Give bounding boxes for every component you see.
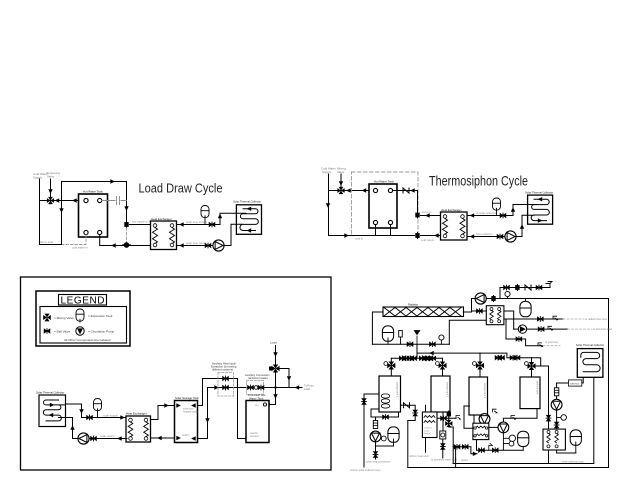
port: T1 bottom-left (84, 230, 88, 234)
ball valve BV34 (514, 355, 520, 360)
arrow: branch down (287, 376, 291, 381)
B3 bottom left drop (473, 415, 475, 423)
tank: domestic hot water tank D (246, 401, 269, 443)
valve tab left (269, 367, 273, 371)
radiator truss (384, 308, 461, 317)
strainer S2 (554, 388, 558, 396)
arrow: to tank (164, 403, 169, 407)
svg-text:Radiator: Radiator (408, 302, 418, 306)
faucet symbol (546, 282, 552, 288)
svg-text:storage tank 2: storage tank 2 (446, 382, 449, 398)
ball valve BV21 (504, 285, 510, 290)
riser to 3way T1 (391, 353, 531, 377)
svg-text:Thermosiphon Cycle: Thermosiphon Cycle (429, 174, 528, 189)
pipe: HX1 bottom to pump (177, 224, 237, 245)
tank: solar storage tank T3 (175, 401, 198, 443)
ball valve BV28 (399, 356, 405, 361)
pump P8 (479, 414, 490, 425)
pipe: HX3 bottom return to collector (66, 418, 128, 439)
solar thermal collector C2 (528, 195, 553, 224)
valve: dark square V7 (447, 411, 451, 417)
ball valve BV27 (430, 342, 436, 347)
ball valve BV32b (499, 355, 505, 360)
arrow: collector top (538, 197, 543, 201)
HX2 ports (443, 215, 464, 238)
ball valve BV39 (441, 416, 447, 421)
manifold drop junction (416, 344, 418, 353)
ball valve BV42 (462, 444, 468, 449)
valve: circle valve on return (123, 242, 130, 248)
H8 coil left (547, 434, 551, 443)
ET4 stem (387, 338, 389, 344)
pipe: HX2 to collector (467, 205, 528, 216)
arrow: c3 down (79, 409, 83, 414)
svg-text:Solar Thermal Collector: Solar Thermal Collector (233, 200, 261, 204)
svg-text:Supply: Supply (322, 170, 332, 174)
solar collector C4 (577, 349, 603, 378)
gauge G2 stem (440, 340, 442, 344)
svg-text:solar loop supply: solar loop supply (186, 220, 208, 224)
pipe: T3 top-right riser (198, 379, 238, 406)
legend expansion tank symbol (76, 309, 84, 321)
arrow: up to collector (70, 425, 74, 430)
ET7 stem (393, 439, 395, 446)
ET1 stem (204, 216, 206, 225)
arrow: into mixing valve (48, 189, 52, 194)
svg-text:Load: Load (270, 341, 277, 345)
collector sensor line (557, 372, 594, 464)
arrow: into tank D (245, 436, 250, 440)
ball valve BV35 (362, 399, 367, 405)
svg-text:sensor: sensor (570, 381, 579, 385)
ball valve BV8 (223, 385, 229, 390)
ball valve BV7 (223, 376, 229, 381)
port: T2 top-left (373, 188, 377, 192)
arrow drain (473, 452, 478, 456)
arrow: to load line (295, 385, 300, 389)
ball valve BV29 (403, 356, 409, 361)
mixing valve MV3 (271, 364, 279, 372)
pump P3 (78, 433, 89, 444)
vent flag (489, 444, 493, 451)
pipe: HX5 bottom-left return to manifold (449, 320, 486, 344)
expansion tank ET7 (388, 427, 399, 442)
valve: dark square V3 (415, 233, 419, 239)
svg-text:preheat tank: preheat tank (536, 381, 539, 395)
svg-text:= Expansion Tank: = Expansion Tank (88, 314, 113, 318)
pipe: pump down branch (376, 442, 394, 459)
ball valve BV5 (87, 415, 93, 420)
legend outer box (36, 291, 130, 346)
pump P10 (551, 399, 562, 410)
ball valve BV41 (454, 444, 460, 449)
svg-text:solar collector loop: solar collector loop (562, 459, 584, 463)
ball valve BV30 (419, 356, 425, 361)
svg-text:to pool loop: to pool loop (545, 340, 559, 344)
svg-text:Hot Water Tank: Hot Water Tank (374, 180, 394, 184)
heat exchanger H7 (473, 423, 489, 439)
tank B2 (431, 376, 450, 412)
arrow: line1 (214, 385, 219, 389)
HX3 coil left (128, 422, 133, 437)
arrow: to valve (346, 188, 351, 192)
valve: dark square V2 (415, 212, 419, 218)
ball valve BV32 (495, 355, 501, 360)
port arrow: T3 top-right (191, 403, 196, 407)
junction dot (274, 386, 276, 388)
expansion tank ET2 (493, 198, 501, 210)
ET5b drop line C (506, 319, 543, 346)
pump P2 (505, 231, 516, 242)
pipe: HX2 bottom to pump to collector (467, 215, 528, 236)
gauge G6 (561, 415, 567, 421)
sensor flag D (511, 416, 516, 420)
arrow: up to collector (218, 214, 222, 219)
svg-text:drains: drains (461, 458, 469, 462)
arrow: down to mv (273, 352, 277, 357)
valve: dark square V1 (124, 222, 128, 228)
arrow: in collector top (247, 207, 252, 211)
pipe: mv right branch (280, 369, 290, 388)
port: T2 bottom-left (373, 220, 377, 224)
ball valve BV29b (407, 356, 413, 361)
pipe: valve to tank (329, 190, 373, 192)
arrow: hx2 out (470, 213, 475, 217)
pipe: HX1 to collector supply (177, 213, 237, 224)
valve: dark square V5 (491, 296, 495, 302)
ball valve BV43 (479, 448, 485, 453)
HX1 port circles (153, 224, 174, 247)
ball valve BV38 (413, 410, 418, 416)
arrow: supply down (326, 203, 330, 208)
pipe: bottom line (329, 235, 415, 237)
thermometer W4 (525, 362, 529, 366)
arrow: into valve (339, 181, 343, 186)
gauge G6 stub (557, 417, 561, 419)
H7 coil 1 (476, 426, 486, 428)
pump P5 (475, 293, 486, 304)
expansion tank ET5b (520, 301, 531, 316)
arrow: top loop flow (110, 179, 115, 183)
H8 bottom left drop (548, 450, 550, 464)
pipe: top loop riser (62, 182, 127, 245)
manifold 2 lower (391, 353, 442, 358)
sensor flag C (538, 343, 543, 347)
pipe: valve drop dashed (126, 228, 128, 242)
ball valve BV20 (477, 309, 483, 314)
ball valve BV31 (423, 356, 429, 361)
mixing valve MV1 (47, 197, 54, 204)
svg-text:storage tank 1: storage tank 1 (396, 382, 399, 398)
tank B1 coil (381, 394, 390, 408)
H6 coil 1 (424, 416, 435, 418)
outer border box (21, 277, 332, 470)
ball valve BV31c (430, 356, 436, 361)
HX2 coil right (460, 219, 465, 235)
svg-text:Solar Thermal Collector: Solar Thermal Collector (576, 343, 604, 347)
svg-text:Valve: Valve (337, 170, 345, 174)
pipe: T1 top-right to union (102, 200, 127, 202)
ball valve BV26 (407, 342, 413, 347)
dashed continuation A (563, 318, 584, 320)
arrow: collector bottom (538, 218, 543, 222)
pipe: radiator right riser (464, 299, 477, 313)
heat exchanger HX1 (151, 221, 177, 250)
svg-text:cold return: cold return (421, 238, 435, 242)
svg-text:heater: heater (424, 432, 430, 435)
gauge G4 (509, 435, 515, 441)
ball valve BV3 (500, 213, 506, 218)
svg-text:storage tank 3: storage tank 3 (483, 383, 486, 399)
svg-text:Valve: Valve (47, 174, 55, 178)
svg-text:tankless: tankless (424, 427, 433, 430)
svg-text:Heat Exchanger: Heat Exchanger (441, 208, 462, 212)
pipe: line1 drop to line2 (238, 379, 247, 439)
pressure relief body (399, 331, 403, 338)
arrow: up into collector (520, 224, 524, 229)
B3 left stub (464, 406, 473, 428)
strainer S1 (373, 421, 377, 429)
C4 serpentine (581, 352, 600, 371)
svg-text:element: element (250, 435, 259, 438)
svg-text:Heat Exchanger: Heat Exchanger (151, 217, 172, 221)
pump P9 (498, 422, 509, 433)
svg-text:Load: Load (304, 387, 310, 391)
pipe: valve stem vertical (50, 179, 52, 197)
valve dark W5 (445, 420, 452, 427)
H6 right line (437, 411, 456, 464)
ball valve BV6 (91, 436, 97, 441)
bottom line 1 (453, 463, 594, 465)
heat exchanger HX2 (441, 212, 468, 240)
ball valve BV36 (383, 415, 389, 420)
dashed box: auxiliary heat input (218, 373, 234, 397)
pipe: tank bottom stub dashed (62, 235, 87, 245)
pump P6 (518, 325, 526, 333)
legend inner box (40, 307, 127, 344)
pipe: cold water supply vertical (39, 179, 41, 245)
legend ball valve symbol (44, 329, 50, 334)
arrow: to hx2 (425, 213, 430, 217)
H7 coil 2 (476, 434, 486, 436)
arrow: tank in (362, 188, 367, 192)
gauge G3 (381, 436, 386, 441)
expansion tank ET5 (518, 431, 529, 446)
legend mixing valve symbol (43, 314, 51, 322)
arrow: into hx3 (120, 415, 125, 419)
pipe: HX3 bottom to tank T3 (151, 437, 175, 439)
arrow: bottom return (111, 243, 116, 247)
dashed boundary box (352, 172, 419, 236)
collector pump drop (556, 383, 558, 429)
3-way valve W4 (527, 362, 535, 370)
HX2 coil left (443, 219, 448, 235)
ball valve BV45 (546, 415, 551, 421)
pipe: load riser (275, 346, 277, 365)
svg-text:out: out (255, 404, 259, 407)
svg-text:heated water: heated water (183, 410, 198, 414)
pipe: C3 out to HX3 (66, 404, 128, 418)
gauge G1 circle (505, 291, 510, 296)
air vent funnel (414, 331, 420, 345)
gauge G1 (507, 296, 509, 299)
ball valve BV23 (537, 317, 543, 322)
svg-text:solar loop return: solar loop return (186, 241, 207, 245)
HX3 ports (129, 418, 148, 440)
arrow: in collector bottom (247, 228, 252, 232)
3-way valve W2 (438, 361, 446, 369)
pipe: tempered water to tank (40, 200, 85, 202)
port arrow: T3 top-left (176, 403, 181, 407)
svg-text:All Other Components Are Label: All Other Components Are Labeled (64, 338, 111, 342)
pipe: pump P6 line B (514, 328, 568, 330)
dashed continuation B (568, 328, 593, 330)
pipe: HX5 right-bottom line A (504, 318, 563, 320)
arrow: bottom flow (344, 233, 349, 237)
svg-text:Water Tank: Water Tank (249, 396, 264, 400)
legend title box (59, 295, 107, 306)
pipe: supply vertical (328, 174, 330, 236)
manifold 1 (372, 343, 449, 345)
HX5 ports (490, 308, 501, 323)
legend pump symbol (76, 327, 84, 335)
ball valve BV33 (510, 355, 516, 360)
pipe: tank bottom stubs (376, 225, 391, 236)
sensor flag E (456, 416, 461, 420)
svg-text:LEGEND: LEGEND (61, 295, 105, 306)
pipe: HX5 right-top to pump P6 (504, 311, 514, 329)
port: T2 bottom-right (388, 220, 392, 224)
drain pair line (453, 447, 477, 454)
pipe: V1 to HX1 top (130, 224, 153, 226)
heat exchanger H6 (422, 412, 437, 438)
ball valve BV22 (536, 285, 542, 290)
pipe: top loop main (408, 299, 609, 468)
pipe: branch to drain row (500, 288, 550, 299)
heat exchanger HX5 (486, 306, 504, 325)
solar thermal collector C3 (39, 395, 66, 427)
gauge G2 (439, 335, 444, 340)
arrow: into hx bottom (434, 233, 439, 237)
HX1 coil right (170, 228, 175, 244)
pump loop to B4 (489, 409, 537, 428)
svg-text:to solar collector: to solar collector (476, 211, 496, 215)
arrow: tank inlet (72, 198, 77, 202)
sensor flag B (548, 326, 553, 330)
arrow: c3 top (50, 403, 55, 407)
tank: hot water tank T1 (79, 194, 108, 237)
union symbol (117, 197, 120, 205)
arrow: down (273, 394, 277, 399)
check valve CK3 (404, 403, 410, 408)
pump P1 (213, 240, 224, 251)
H7 coil 1 ports (474, 427, 476, 429)
svg-text:cold in: cold in (355, 237, 364, 241)
arrow: drop to valve (124, 206, 128, 211)
svg-text:hot out: hot out (422, 210, 431, 214)
thermometer W1 (384, 362, 388, 366)
arrow: into tank D top (265, 402, 270, 406)
arrow: manifold upper (429, 351, 434, 355)
pipe: radiator left drop (372, 312, 383, 344)
3-way valve W1 (387, 361, 395, 369)
svg-text:(tankless heater): (tankless heater) (248, 376, 268, 380)
C1 serpentine (236, 209, 258, 231)
check valve CK2 (525, 285, 531, 290)
port: T2 top-right (388, 188, 392, 192)
svg-text:to radiant floor loop: to radiant floor loop (585, 317, 608, 321)
heat exchanger HX3 (126, 416, 151, 442)
svg-text:to/from heat exch.: to/from heat exch. (409, 454, 430, 458)
HX1 coil left (153, 228, 158, 244)
pipe: tank bottom stub solid (100, 235, 152, 246)
3-way valve W3 (476, 361, 484, 369)
pipe: bottom left line (40, 244, 62, 246)
ET6 stem (575, 442, 577, 453)
svg-text:water: water (424, 429, 430, 432)
solar thermal collector C1 (236, 205, 261, 235)
expansion tank ET1 (201, 206, 209, 218)
ball valve BV29c (411, 356, 417, 361)
expansion tank ET3 (94, 399, 102, 411)
B2 staircase loop (401, 405, 426, 467)
ball valve BV4 (497, 234, 503, 239)
svg-text:= Circulation Pump: = Circulation Pump (88, 329, 115, 333)
tank B3 (469, 377, 488, 415)
pressure relief valve (400, 337, 402, 344)
arrow: tempered water (55, 198, 60, 202)
svg-text:Supply: Supply (33, 175, 43, 179)
sensor flag A (553, 316, 558, 320)
arrow: c3 mid (49, 413, 54, 417)
HX5 coil right (497, 311, 501, 320)
svg-text:= Mixing Valve: = Mixing Valve (54, 316, 74, 320)
pipe: valve stem (340, 174, 342, 187)
svg-text:solar loop connection: solar loop connection (366, 459, 391, 463)
svg-text:from collector: from collector (476, 232, 493, 236)
ball valve BV24 (538, 327, 544, 332)
B2 bottom drop (442, 412, 444, 431)
svg-text:Heat Exchanger: Heat Exchanger (126, 412, 147, 416)
mixing valve MV2 (337, 187, 344, 194)
comp circle (441, 433, 445, 437)
svg-text:to domestic load: to domestic load (593, 327, 612, 331)
svg-text:Solar Thermal Collector: Solar Thermal Collector (525, 191, 553, 195)
ball valve BV10 (258, 385, 264, 390)
arrow: hx out (179, 222, 184, 226)
B1 coil stub top (364, 394, 379, 467)
expansion tank ET5b stem (525, 299, 527, 303)
radiator (383, 307, 464, 317)
svg-text:Solar Thermal Collector: Solar Thermal Collector (36, 391, 64, 395)
legend expansion tank stem (79, 319, 81, 322)
ball valve BV40 (440, 444, 445, 450)
port: tank D top-right (263, 403, 266, 406)
thermometer W2 (436, 362, 440, 366)
svg-text:= Ball Valve: = Ball Valve (54, 329, 70, 333)
svg-text:hot to load: hot to load (40, 240, 54, 244)
arrow: riser up (511, 207, 515, 212)
H8 bottom right to ET6 (557, 450, 576, 453)
H6 bottom drop (425, 438, 427, 453)
ball valve BV9 (248, 385, 254, 390)
pipe: V3 to HX2 bottom (421, 235, 442, 237)
ET5 stem (522, 446, 524, 450)
port: T1 bottom-right (98, 230, 102, 234)
H8 coil right (555, 434, 559, 443)
H6 coil 2 (424, 421, 435, 423)
arrow: down to tank (205, 418, 209, 423)
